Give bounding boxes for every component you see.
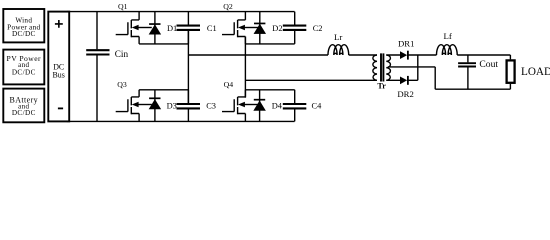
svg-text:Cout: Cout [479,59,498,70]
svg-text:DR2: DR2 [397,89,413,99]
svg-text:D4: D4 [272,102,283,111]
svg-text:DC/DC: DC/DC [12,30,36,38]
svg-text:D3: D3 [167,102,177,111]
svg-text:C2: C2 [313,24,323,33]
svg-text:Q1: Q1 [118,2,128,11]
svg-text:Cin: Cin [115,49,129,59]
svg-text:Q2: Q2 [223,2,233,11]
svg-text:Lr: Lr [334,32,342,42]
svg-text:DR1: DR1 [398,39,414,49]
svg-text:DC/DC: DC/DC [12,109,36,117]
svg-text:Lf: Lf [444,31,452,41]
svg-text:D1: D1 [167,24,177,33]
svg-text:Bus: Bus [53,71,65,80]
svg-text:C4: C4 [312,102,323,111]
svg-text:C3: C3 [206,102,216,111]
svg-text:Q4: Q4 [224,80,234,89]
svg-text:D2: D2 [272,24,282,33]
svg-text:LOAD: LOAD [521,66,550,78]
svg-text:DC/DC: DC/DC [12,68,36,76]
svg-text:C1: C1 [207,24,217,33]
svg-text:Tr: Tr [377,82,386,91]
svg-text:Q3: Q3 [117,80,127,89]
